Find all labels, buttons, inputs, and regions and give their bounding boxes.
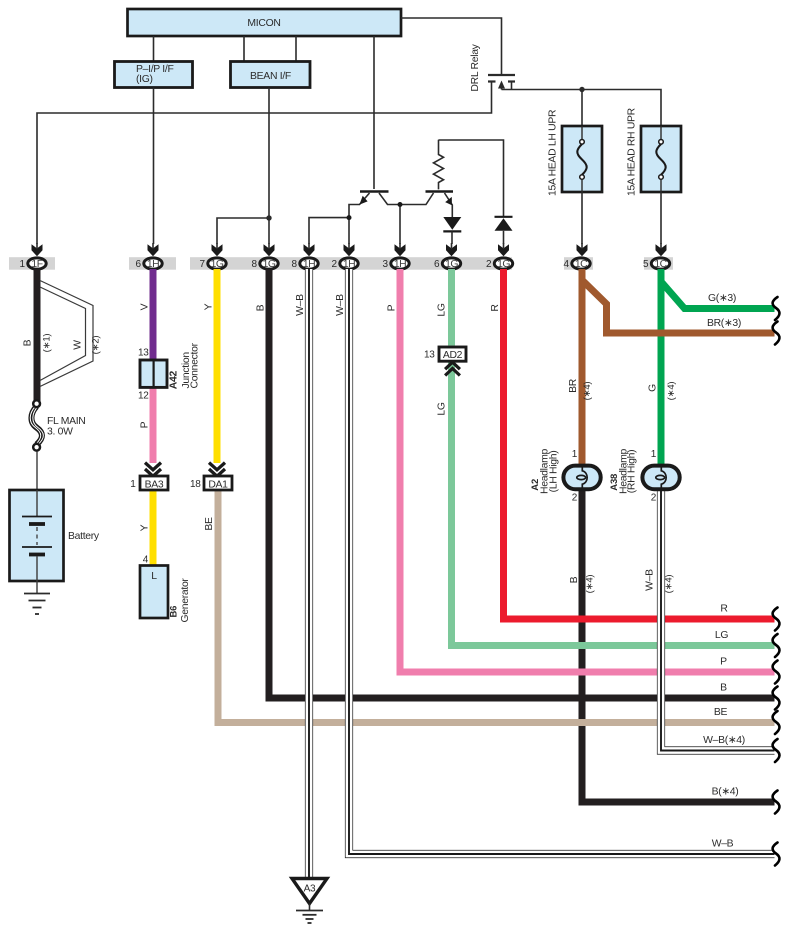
svg-text:1G: 1G <box>263 259 276 270</box>
transistor Q2 <box>426 192 454 218</box>
connector bar center <box>190 257 512 270</box>
connector 4 1C <box>564 244 591 270</box>
wire Q1 emitter net to connectors 8 1H and 2 1H <box>309 218 349 244</box>
svg-text:8: 8 <box>292 259 298 270</box>
svg-text:B(∗4): B(∗4) <box>712 787 739 798</box>
svg-text:1H: 1H <box>343 259 355 270</box>
svg-text:12: 12 <box>138 391 149 402</box>
svg-text:1H: 1H <box>147 259 159 270</box>
wire P-I/P to connector 6 1H <box>153 88 155 245</box>
svg-text:A3: A3 <box>304 884 316 895</box>
svg-text:R: R <box>490 304 501 312</box>
resistor R1 <box>434 140 444 190</box>
svg-text:B6: B6 <box>169 606 180 618</box>
svg-text:P: P <box>387 304 398 311</box>
svg-text:1: 1 <box>651 449 657 460</box>
connector AD2 <box>424 347 466 376</box>
diode D2 <box>495 217 513 244</box>
svg-text:6: 6 <box>434 259 440 270</box>
diode D1 <box>443 217 461 244</box>
continuation squiggle LG <box>773 634 780 657</box>
svg-text:1G: 1G <box>445 259 458 270</box>
G(*3) branch <box>661 282 775 309</box>
svg-text:P: P <box>140 421 151 428</box>
node junction at LH fuse feed <box>579 87 584 92</box>
wire long horizontal from DRL source to connector 1F <box>37 82 492 245</box>
svg-text:13: 13 <box>138 348 149 359</box>
BR brown main from 4 1C to A2 <box>579 269 586 464</box>
svg-text:1C: 1C <box>654 259 667 270</box>
wire collector node to connector 3 1H <box>399 205 401 245</box>
headlamp A2 (LH High) <box>530 449 601 504</box>
svg-text:FL MAIN: FL MAIN <box>47 416 86 427</box>
connector 5 1C <box>643 244 670 270</box>
P pink run from 3 1H <box>400 269 775 672</box>
wire RH fuse to connector 5 1C <box>660 192 662 244</box>
svg-text:W–B: W–B <box>295 294 306 316</box>
svg-text:3: 3 <box>383 259 389 270</box>
svg-text:1H: 1H <box>394 259 406 270</box>
fusible link FL MAIN 3.0W <box>30 400 85 450</box>
svg-text:MICON: MICON <box>247 18 280 29</box>
V violet wire from 6 1H to A42 <box>150 269 157 361</box>
svg-text:2: 2 <box>486 259 492 270</box>
svg-text:B: B <box>569 576 580 583</box>
svg-text:G: G <box>648 384 659 392</box>
svg-text:1H: 1H <box>303 259 315 270</box>
wire MICON to BEAN I/F left <box>243 36 245 62</box>
svg-text:4: 4 <box>564 259 570 270</box>
svg-text:W–B: W–B <box>645 569 656 591</box>
wire MICON to transistor Q1 base <box>373 36 375 189</box>
svg-text:(∗4): (∗4) <box>582 382 593 401</box>
MICON U1 <box>128 9 402 36</box>
svg-text:1: 1 <box>572 449 578 460</box>
svg-text:Battery: Battery <box>68 531 100 542</box>
connector 6 1H <box>136 244 163 270</box>
svg-text:LG: LG <box>437 402 448 415</box>
continuation squiggle P <box>773 661 780 684</box>
G green main from 5 1C to A38 <box>658 269 665 464</box>
connector BA3 <box>130 476 168 490</box>
continuation squiggle W-B(*4) <box>773 739 780 762</box>
svg-text:W: W <box>73 340 84 350</box>
node junction on 8 1G line <box>266 215 271 220</box>
Battery <box>10 490 100 581</box>
continuation squiggle R <box>773 608 780 631</box>
continuation squiggle BR(*3) <box>773 322 780 345</box>
svg-text:B: B <box>256 304 267 311</box>
svg-text:LG: LG <box>715 630 728 641</box>
svg-text:L: L <box>151 571 157 582</box>
svg-text:1G: 1G <box>211 259 224 270</box>
svg-text:(∗2): (∗2) <box>91 336 102 355</box>
Y yellow wire from 7 1G to DA1 <box>214 269 221 463</box>
svg-text:BR: BR <box>568 378 579 393</box>
svg-text:BE: BE <box>204 517 215 531</box>
wire LH fuse to connector 4 1C <box>581 192 583 244</box>
svg-text:DA1: DA1 <box>208 479 228 490</box>
continuation squiggle B <box>773 687 780 710</box>
connector 8 1G <box>252 244 279 270</box>
wire to LH fuse <box>581 90 583 127</box>
connector 3 1H <box>383 244 410 270</box>
svg-text:AD2: AD2 <box>443 350 463 361</box>
svg-text:B: B <box>23 339 34 346</box>
svg-text:6: 6 <box>136 259 142 270</box>
LG run from AD2 to right edge <box>452 361 775 646</box>
svg-text:1: 1 <box>130 479 136 490</box>
svg-text:Generator: Generator <box>180 578 191 623</box>
svg-text:1: 1 <box>20 259 26 270</box>
svg-text:(RH High): (RH High) <box>627 450 638 494</box>
W-B(*4) wire A38 pin2 to right edge <box>661 491 775 751</box>
LG run upper segment from 6 1G to AD2 <box>448 269 455 346</box>
svg-text:7: 7 <box>200 259 206 270</box>
svg-text:15A HEAD LH UPR: 15A HEAD LH UPR <box>548 109 559 196</box>
svg-text:2: 2 <box>651 493 657 504</box>
BR(*3) branch <box>582 280 775 333</box>
svg-text:(∗1): (∗1) <box>42 334 53 353</box>
B(*4) black run from A2 pin2 <box>582 490 775 802</box>
connector bar 5 1C <box>644 257 673 270</box>
junction connector A42 <box>138 342 201 401</box>
BE run from DA1 <box>218 490 775 723</box>
wire BEAN to connector 8 1G <box>268 88 270 245</box>
node junction Q1 emitter <box>347 215 352 220</box>
svg-text:5: 5 <box>643 259 649 270</box>
connector bar 1H left <box>129 257 176 270</box>
svg-text:(LH High): (LH High) <box>549 451 560 493</box>
wire branch to connector 7 1G <box>217 218 269 244</box>
B black run from 8 1G <box>269 269 775 698</box>
generator B6 box <box>140 555 191 623</box>
svg-text:W–B(∗4): W–B(∗4) <box>703 735 745 746</box>
connector 8 1H <box>292 244 319 270</box>
fuse 15A HEAD RH UPR <box>627 107 682 196</box>
svg-text:18: 18 <box>190 479 201 490</box>
connector bar 4 1C <box>564 257 593 270</box>
continuation squiggle BE <box>773 711 780 734</box>
svg-text:BEAN I/F: BEAN I/F <box>250 71 291 82</box>
wire FL MAIN to battery <box>36 452 38 491</box>
BEAN I/F box <box>231 62 311 88</box>
svg-text:BE: BE <box>714 707 728 718</box>
svg-text:1F: 1F <box>31 259 42 270</box>
svg-text:BA3: BA3 <box>145 479 164 490</box>
svg-text:(∗4): (∗4) <box>666 382 677 401</box>
node junction collectors <box>398 202 403 207</box>
connector 1 1F <box>20 244 47 270</box>
wire MICON to P-I/P I/F <box>153 36 155 62</box>
svg-text:2: 2 <box>572 493 578 504</box>
svg-text:DRL Relay: DRL Relay <box>470 43 481 91</box>
connector 7 1G <box>200 244 227 270</box>
svg-text:G(∗3): G(∗3) <box>708 293 736 304</box>
connector 6 1G <box>434 244 461 270</box>
svg-text:3. 0W: 3. 0W <box>47 427 73 438</box>
svg-text:1G: 1G <box>497 259 510 270</box>
svg-text:B: B <box>720 683 727 694</box>
svg-text:(∗4): (∗4) <box>585 575 596 594</box>
ground battery <box>24 581 50 614</box>
continuation squiggle G(*3) <box>773 297 780 320</box>
svg-text:2: 2 <box>332 259 338 270</box>
svg-text:8: 8 <box>252 259 258 270</box>
svg-text:P: P <box>720 657 727 668</box>
P pink wire from A42 to BA3 <box>150 387 157 463</box>
svg-text:A42: A42 <box>169 371 180 390</box>
svg-text:Connector: Connector <box>190 342 201 388</box>
P-I/P I/F (IG) box <box>115 62 193 88</box>
R red run from 2 1G <box>504 269 775 619</box>
connector 2 1H <box>332 244 359 270</box>
connector 2 1G <box>486 244 513 270</box>
svg-text:W–B: W–B <box>712 839 734 850</box>
continuation squiggle W-B <box>773 843 780 866</box>
svg-text:15A HEAD RH UPR: 15A HEAD RH UPR <box>627 107 638 196</box>
wire MICON to BEAN I/F right <box>295 36 297 62</box>
svg-text:V: V <box>140 303 151 310</box>
connector DA1 <box>190 476 232 490</box>
svg-text:LG: LG <box>437 303 448 316</box>
svg-text:(∗4): (∗4) <box>664 575 675 594</box>
DRL Relay (MOSFET) <box>470 43 515 91</box>
svg-text:W–B: W–B <box>335 294 346 316</box>
continuation squiggle B(*4) <box>773 791 780 814</box>
chevrons into BA3 <box>145 463 161 477</box>
B / W loop at 1F <box>23 269 102 404</box>
connector bar 1F <box>9 257 55 270</box>
svg-text:1C: 1C <box>575 259 588 270</box>
wire DRL drain to fuses <box>502 90 662 127</box>
svg-text:(IG): (IG) <box>136 74 153 85</box>
W-B wire 8 1H to ground A3 <box>305 269 313 877</box>
svg-text:R: R <box>720 604 728 615</box>
svg-text:BR(∗3): BR(∗3) <box>707 318 741 329</box>
transistor Q1 <box>349 192 427 218</box>
Y yellow wire from BA3 to B6 <box>150 490 157 566</box>
wire MICON right to DRL relay gate <box>401 18 502 74</box>
ground A3 <box>292 879 327 924</box>
svg-text:Y: Y <box>204 303 215 310</box>
headlamp A38 (RH High) <box>609 449 680 504</box>
wire resistor top to diode D2 <box>439 140 504 217</box>
svg-text:13: 13 <box>424 349 435 360</box>
W-B wire 2 1H to right edge <box>349 269 775 854</box>
svg-text:4: 4 <box>143 555 149 566</box>
fuse 15A HEAD LH UPR <box>548 109 603 196</box>
wire stubs into connector arrows <box>37 243 661 248</box>
svg-text:Y: Y <box>140 524 151 531</box>
chevrons into DA1 <box>209 463 225 477</box>
